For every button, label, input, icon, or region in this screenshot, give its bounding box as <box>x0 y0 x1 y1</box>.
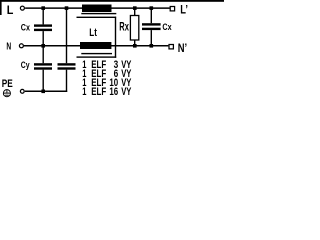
svg-text:PE: PE <box>2 78 13 90</box>
svg-text:Cx: Cx <box>162 22 172 33</box>
svg-text:L’: L’ <box>180 2 188 16</box>
svg-text:VY: VY <box>121 86 132 98</box>
capacitor Cx2 plates <box>142 23 161 25</box>
table row 4: 1 ELF 16 VY <box>82 86 132 98</box>
node junction dot N-Cx2 <box>150 44 154 48</box>
capacitor Cy1 plates <box>34 63 52 65</box>
wire Cy2 vertical x=66.5 <box>66 8 68 63</box>
terminal L' <box>170 7 174 11</box>
table row 2: 1 ELF 6 VY <box>82 68 132 80</box>
svg-text:N: N <box>6 42 11 53</box>
wire Cx1/Cy1 vertical x=43.2 <box>42 8 44 24</box>
table row 1: 1 ELF 3 VY <box>82 59 132 71</box>
node junction dot L-Rx <box>133 6 137 10</box>
node junction dot PE-Cy1 <box>41 90 45 94</box>
ground symbol PE earth <box>3 90 10 97</box>
resistor Rx stems <box>134 8 136 15</box>
inductor Lt bottom winding <box>80 42 111 49</box>
inductor Lt shield line D <box>77 56 117 57</box>
svg-text:16: 16 <box>109 86 118 98</box>
terminal L <box>20 6 24 10</box>
inductor Lt shield right vertical <box>115 17 116 58</box>
wire L line <box>25 7 170 9</box>
terminal N <box>19 44 23 48</box>
terminal N' <box>169 45 173 49</box>
svg-text:Cy: Cy <box>21 60 30 71</box>
node junction dot L-Cx1 <box>41 6 45 10</box>
node junction dot L-Cy2 <box>65 6 69 10</box>
svg-text:Cx: Cx <box>21 22 31 33</box>
node junction dot N-Rx <box>133 44 137 48</box>
capacitor Cy2 plates <box>58 63 76 65</box>
wire N line <box>24 45 168 47</box>
node junction dot N-Cx1 <box>41 44 45 48</box>
svg-text:Rx: Rx <box>119 22 129 34</box>
table row 3: 1 ELF 10 VY <box>82 77 132 89</box>
capacitor Cx1 plates <box>34 24 52 26</box>
inductor Lt core line A <box>81 13 116 14</box>
svg-text:L: L <box>7 3 14 17</box>
svg-text:N’: N’ <box>178 41 187 55</box>
terminal PE <box>20 89 24 93</box>
svg-text:1: 1 <box>82 86 86 98</box>
resistor Rx body <box>130 16 138 41</box>
svg-text:Lt: Lt <box>89 27 97 39</box>
node junction dot L-Cx2 <box>150 6 154 10</box>
wire Cx2 vertical x=151.3 <box>150 8 152 23</box>
inductor Lt top winding <box>82 5 112 13</box>
border left segment <box>0 0 2 15</box>
wire PE line <box>25 90 67 92</box>
svg-text:ELF: ELF <box>91 86 106 98</box>
inductor Lt core line C <box>81 53 112 54</box>
border top <box>0 0 224 2</box>
inductor Lt shield line B <box>77 17 117 18</box>
